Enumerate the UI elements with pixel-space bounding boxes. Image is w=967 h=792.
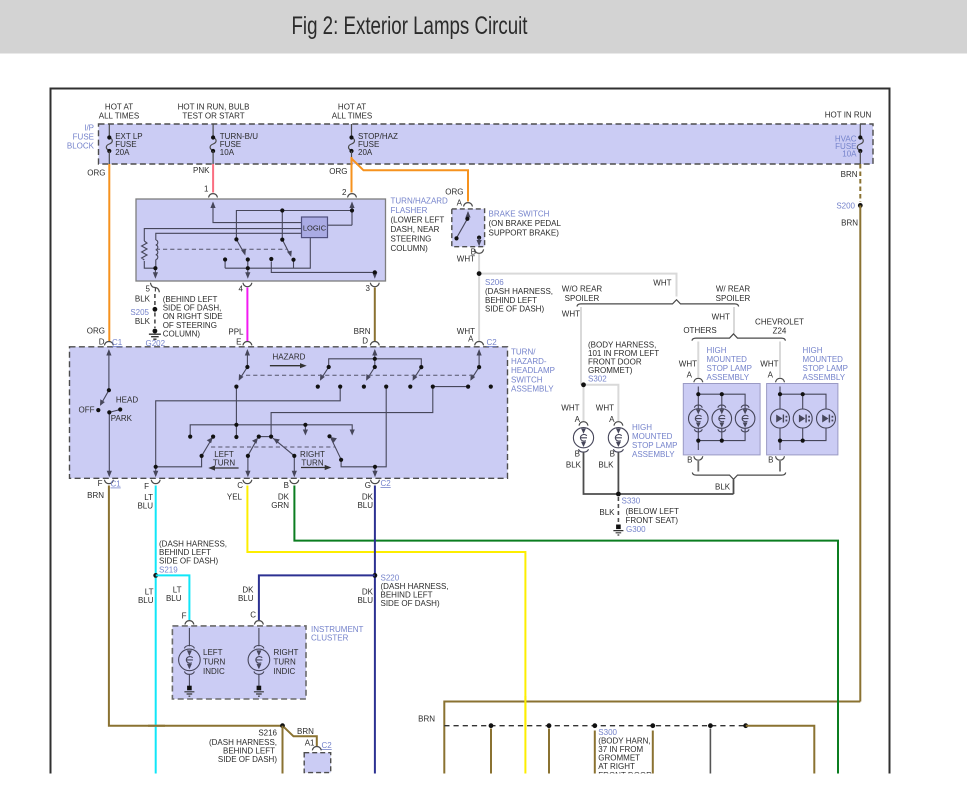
svg-text:W/O REARSPOILER: W/O REARSPOILER xyxy=(562,285,603,304)
wire WHT S302 branch to right stop lamp xyxy=(584,385,619,422)
wire WHT brake switch B to switch assembly pin A xyxy=(478,254,480,342)
splice dots S300 bus xyxy=(489,723,494,728)
arrowheads turn bus stubs xyxy=(303,430,308,436)
svg-text:A: A xyxy=(609,415,615,424)
svg-text:C2: C2 xyxy=(381,479,392,488)
z24 3-led high mounted stop lamp box xyxy=(767,384,838,455)
svg-text:D: D xyxy=(99,338,105,347)
svg-text:1: 1 xyxy=(204,185,209,194)
others 3-bulb high mounted stop lamp box xyxy=(683,384,760,455)
wire ORG from STOP/HAZ fuse to flasher pin 2 xyxy=(351,157,353,193)
svg-text:HEAD: HEAD xyxy=(116,395,138,404)
brake switch arm wire xyxy=(467,212,469,219)
svg-text:BLK: BLK xyxy=(135,317,151,326)
svg-text:S330: S330 xyxy=(622,496,641,505)
wire BRN overlay at cyan crossing xyxy=(148,725,165,727)
stem arrows (others) xyxy=(696,409,701,414)
wire BRN drop 3 xyxy=(594,731,596,774)
svg-text:A1: A1 xyxy=(305,739,315,748)
wire park to pin F xyxy=(108,412,110,472)
wire BRN switch F to S216 run xyxy=(109,486,283,726)
arrowhead brake pin A xyxy=(465,211,470,218)
hazard direction arrow xyxy=(270,365,303,367)
junction dots (switch assembly) xyxy=(107,388,111,392)
wire B exit (others) xyxy=(697,441,699,450)
brake switch box xyxy=(452,209,485,247)
hazard blade 5 xyxy=(471,367,479,379)
arrowhead pin4 down xyxy=(245,272,250,279)
wire BRN S216 down xyxy=(282,726,284,774)
wire LOGIC left to coil xyxy=(156,233,302,240)
wire hazard E stem xyxy=(246,351,248,368)
pin D top connector xyxy=(104,342,113,346)
svg-text:S206: S206 xyxy=(485,278,504,287)
splice S216 xyxy=(280,723,285,728)
svg-text:A: A xyxy=(768,371,774,380)
wire bus stub 305 xyxy=(304,425,306,433)
svg-text:(BELOW LEFTFRONT SEAT): (BELOW LEFTFRONT SEAT) xyxy=(626,507,679,525)
frame right border xyxy=(889,88,891,774)
dashed mechanical link (flasher) xyxy=(156,248,287,250)
wire tent right pivot to pin B xyxy=(293,456,295,472)
wire BRN flasher pin3 to switch pin D xyxy=(374,288,376,343)
bulb 3 (others) xyxy=(735,409,755,429)
svg-text:A: A xyxy=(687,371,693,380)
brace others/z24 split xyxy=(692,334,785,341)
bottom pin connectors xyxy=(104,480,113,484)
wire tent left pivot to pin C xyxy=(247,456,249,472)
svg-text:C: C xyxy=(250,611,256,620)
svg-text:OTHERS: OTHERS xyxy=(683,326,716,335)
wire switch2 right contact stub xyxy=(293,260,295,269)
splice S302 xyxy=(581,382,586,387)
svg-text:BLK: BLK xyxy=(715,483,731,492)
wire BRN S200 horizontal run xyxy=(444,702,860,774)
svg-text:WHT: WHT xyxy=(561,404,579,413)
flasher pin 2 connector xyxy=(348,194,357,198)
svg-text:B: B xyxy=(284,481,289,490)
arrowhead brake pin B down xyxy=(477,240,482,246)
wire switch1 right contact stub xyxy=(247,260,249,269)
svg-text:5: 5 xyxy=(146,285,151,294)
bottom bus (z24) xyxy=(780,428,826,441)
svg-text:RIGHTTURN: RIGHTTURN xyxy=(300,450,325,468)
svg-text:WHT: WHT xyxy=(653,279,671,288)
led 2 (z24) xyxy=(793,409,812,428)
wire BRN S216 to A1 xyxy=(284,727,317,747)
wire YEL switch C down to bottom xyxy=(247,486,525,774)
wire BLK dashed S205 to G202 xyxy=(154,313,156,329)
wire BRN from last splice right and down xyxy=(746,726,815,774)
svg-text:PARK: PARK xyxy=(111,414,133,423)
frame top border xyxy=(50,88,891,90)
brace rear spoiler split xyxy=(577,300,739,307)
svg-text:G300: G300 xyxy=(626,525,646,534)
arrowhead pin3 down xyxy=(372,272,377,279)
svg-text:B: B xyxy=(768,456,773,465)
wire WHT w/ spoiler branch xyxy=(733,307,735,334)
wire LT BLU switch F2 down left side xyxy=(155,486,157,774)
wire resistor bottoms join xyxy=(144,261,155,268)
bulb 1 (others) xyxy=(689,409,709,429)
arrowheads at bottom pins xyxy=(107,471,112,478)
right turn indicator bulb xyxy=(248,628,270,686)
flasher pin 1 connector xyxy=(209,194,218,198)
right single stop lamp bulb xyxy=(608,428,628,453)
left turn blade xyxy=(203,439,212,455)
wire pin1 to LOGIC xyxy=(213,203,302,223)
wire left turn pivot to F junction xyxy=(156,456,202,467)
svg-text:4: 4 xyxy=(239,285,244,294)
svg-text:ORG: ORG xyxy=(445,188,463,197)
tent right blade xyxy=(273,438,294,455)
arrowhead pin1 up xyxy=(210,202,215,209)
svg-text:C2: C2 xyxy=(322,741,333,750)
svg-text:F: F xyxy=(182,612,187,621)
wire B z24 down xyxy=(779,461,781,472)
svg-text:C1: C1 xyxy=(111,480,122,489)
wire PNK from TURN-B/U fuse to flasher pin 1 xyxy=(212,164,214,193)
svg-text:C2: C2 xyxy=(487,338,498,347)
hazard blade 2 stem xyxy=(329,359,375,367)
svg-text:PPL: PPL xyxy=(228,328,244,337)
led 1 (z24) xyxy=(771,409,790,428)
wire splice to pin5 xyxy=(154,268,156,276)
bulb stems top xyxy=(697,394,699,409)
wire LOGIC right to pin2 xyxy=(328,224,353,226)
coil (flasher) xyxy=(156,240,158,260)
arrowhead tent left blade xyxy=(252,438,258,444)
wire switch2 pivot drop xyxy=(281,211,283,240)
svg-text:BLK: BLK xyxy=(135,295,151,304)
splice S220 xyxy=(373,573,378,578)
junction dots (z24) xyxy=(778,392,782,396)
wire BRN dashed below HVAC fuse xyxy=(859,164,861,202)
fuse TURN-B/U feed wire xyxy=(212,124,214,137)
wire DK BLU switch G down to bottom xyxy=(374,486,376,774)
left single stop lamp pin A connector xyxy=(579,422,588,426)
splice S200 xyxy=(858,203,863,208)
pin A connector (others box) xyxy=(694,378,703,382)
right single stop lamp pin A connector xyxy=(614,422,623,426)
ground G202 xyxy=(153,329,158,334)
svg-text:HOT IN RUN, BULBTEST OR START: HOT IN RUN, BULBTEST OR START xyxy=(178,103,250,121)
svg-text:WHT: WHT xyxy=(712,313,730,322)
wire headlamp switch stem xyxy=(108,351,110,391)
svg-text:A: A xyxy=(468,335,474,344)
wire E contact drop xyxy=(235,387,237,437)
wire pin G exit xyxy=(374,467,376,472)
bulb 2 (others) xyxy=(712,409,732,429)
fuse TURN-B/U element xyxy=(210,138,216,151)
headlamp park contact blade xyxy=(109,410,120,413)
svg-text:BRN: BRN xyxy=(418,715,435,724)
junction dots (flasher) xyxy=(280,208,284,212)
I/P fuse block box xyxy=(99,124,874,164)
wire pin2 stem xyxy=(351,203,353,226)
svg-text:B: B xyxy=(687,456,692,465)
wire WHT to z24 stop lamp A xyxy=(779,342,781,378)
svg-text:S200: S200 xyxy=(836,202,855,211)
wire WHT S302 to left stop lamp xyxy=(583,385,585,422)
wire B others down xyxy=(697,461,699,472)
bottom crop xyxy=(0,774,967,792)
arrowhead headlamp blade xyxy=(100,399,105,406)
wire pin A into bus xyxy=(697,387,699,395)
turn/hazard-headlamp switch assembly box xyxy=(70,347,508,479)
tent top link xyxy=(259,436,271,438)
wire A contact to tent riser xyxy=(271,387,468,437)
svg-text:HOT IN RUN: HOT IN RUN xyxy=(825,111,872,120)
wire BRN from S200 down right side xyxy=(859,205,861,701)
wire ORG from EXT LP fuse to headlamp switch pin D xyxy=(108,164,110,342)
flasher pin 3 connector xyxy=(370,283,379,287)
wire pin A into bus (z24) xyxy=(779,387,781,395)
brake switch blade xyxy=(457,219,468,238)
svg-text:BRN: BRN xyxy=(297,727,314,736)
svg-text:C: C xyxy=(237,481,243,490)
left turn indicator bulb xyxy=(179,628,201,686)
junction dots (others) xyxy=(696,392,700,396)
wire BLK dashed S330 to G300 xyxy=(617,497,619,525)
svg-text:S205: S205 xyxy=(130,308,149,317)
svg-text:F: F xyxy=(144,482,149,491)
wire turn bus xyxy=(190,425,352,435)
cluster pin C connector xyxy=(254,621,263,625)
svg-text:BLK: BLK xyxy=(598,461,614,470)
top bus (z24) xyxy=(780,394,826,409)
pin B connector (others box) xyxy=(694,456,703,460)
wire switch2 left contact to pin3 xyxy=(271,262,375,273)
fuse EXT LP element xyxy=(106,138,112,151)
svg-text:E: E xyxy=(236,338,241,347)
svg-text:WHT: WHT xyxy=(596,404,614,413)
dashed hazard link xyxy=(246,374,476,376)
bottom bus (others) xyxy=(698,428,745,441)
hazard blade 4 xyxy=(413,367,421,379)
svg-text:BRN: BRN xyxy=(841,170,858,179)
svg-text:PNK: PNK xyxy=(193,166,210,175)
wire WHT to others stop lamp A xyxy=(697,342,699,378)
svg-text:C1: C1 xyxy=(112,338,123,347)
splice S206 xyxy=(477,271,482,276)
ground (left indicator) xyxy=(187,686,192,691)
svg-text:WHT: WHT xyxy=(760,360,778,369)
right turn blade xyxy=(331,438,341,458)
arrowhead pin5 down xyxy=(153,272,158,279)
wire DK GRN overlay at crossing xyxy=(837,696,839,707)
arrowhead tent right blade xyxy=(273,438,280,444)
svg-text:2: 2 xyxy=(342,188,347,197)
pin B connector (z24 box) xyxy=(776,456,785,460)
cluster pin F connector xyxy=(185,621,194,625)
wire LOGIC left to resistor xyxy=(144,229,301,241)
svg-text:A: A xyxy=(457,199,463,208)
switch blade 1 (flasher) xyxy=(236,239,244,253)
svg-text:WHT: WHT xyxy=(679,360,697,369)
wire GRY drop xyxy=(709,729,711,774)
svg-text:OFF: OFF xyxy=(79,406,95,415)
arrowhead left turn blade xyxy=(207,437,213,443)
svg-text:BRN: BRN xyxy=(841,219,858,228)
wire B exit (z24) xyxy=(779,441,781,450)
LOGIC box xyxy=(302,217,328,238)
svg-text:RIGHTTURNINDIC: RIGHTTURNINDIC xyxy=(274,648,299,676)
wire BRN drop 1 xyxy=(490,729,492,774)
dashed S300 bus xyxy=(444,725,747,727)
dashed turn link xyxy=(211,446,335,448)
wire blade2 right contact to LT BLU riser xyxy=(156,387,341,467)
wire bus pin2 xyxy=(236,211,352,240)
instrument cluster box xyxy=(172,626,306,699)
fuse EXT LP feed wire xyxy=(108,124,110,137)
svg-text:Fig 2: Exterior Lamps Circuit: Fig 2: Exterior Lamps Circuit xyxy=(292,12,528,40)
svg-text:BLK: BLK xyxy=(566,461,582,470)
left single stop lamp bulb xyxy=(573,428,593,453)
frame left border xyxy=(50,88,52,774)
pin A connector (z24 box) xyxy=(776,378,785,382)
arrowheads at top pins xyxy=(106,349,111,356)
svg-text:B: B xyxy=(575,450,580,459)
wire pin F exit xyxy=(155,467,157,472)
svg-text:W/ REARSPOILER: W/ REARSPOILER xyxy=(716,285,751,304)
svg-text:G: G xyxy=(365,481,371,490)
switch blade 2 (flasher) xyxy=(282,240,290,255)
left turn direction arrow xyxy=(212,467,239,469)
brake switch contact to pin B xyxy=(477,236,481,240)
svg-text:LEFTTURNINDIC: LEFTTURNINDIC xyxy=(203,648,225,676)
brake switch pin A connector xyxy=(464,203,473,207)
fuse STOP/HAZ feed wire xyxy=(351,124,353,137)
led 3 (z24) xyxy=(817,409,836,428)
flasher pin 5 connector xyxy=(150,283,159,292)
wire ORG branch to brake switch xyxy=(352,159,469,202)
wire hazard D stem xyxy=(374,351,376,368)
hazard blade 1 xyxy=(240,367,248,379)
resistor (flasher) xyxy=(142,241,147,260)
svg-text:LEFTTURN: LEFTTURN xyxy=(213,450,235,468)
title bar xyxy=(0,0,967,54)
wire D right contact long riser xyxy=(341,387,386,467)
brace B join xyxy=(692,473,785,480)
ground (right indicator) xyxy=(257,686,262,691)
svg-text:WHT: WHT xyxy=(562,310,580,319)
tent left blade xyxy=(249,440,257,455)
fuse STOP/HAZ element xyxy=(349,138,355,151)
hazard blade 2 xyxy=(321,367,329,379)
wire PPL flasher pin4 to switch pin E xyxy=(246,288,248,343)
fuse HVAC feed wire xyxy=(859,124,861,137)
splice S205 xyxy=(153,307,158,312)
ground G300 xyxy=(616,525,621,530)
svg-text:ORG: ORG xyxy=(87,327,105,336)
led symbols xyxy=(776,415,833,423)
svg-text:B: B xyxy=(610,450,615,459)
wire pin4 drop xyxy=(247,268,249,276)
pin A1 connector xyxy=(312,747,321,751)
hazard blade 4 stem xyxy=(375,359,422,367)
headlamp switch blade xyxy=(101,390,109,404)
svg-text:HAZARD: HAZARD xyxy=(273,353,306,362)
splice S219 xyxy=(153,573,158,578)
wire BRN drop 4 xyxy=(652,731,654,774)
wire BLK brace to S330 run xyxy=(733,480,735,495)
wire DK GRN switch B down to bottom right xyxy=(294,486,838,774)
svg-text:3: 3 xyxy=(366,284,371,293)
arrowhead blade1 xyxy=(241,249,246,255)
wire YEL overlay at crossings xyxy=(524,696,526,730)
wire WHT w/o spoiler branch to S302 xyxy=(580,307,582,385)
wire LOGIC bottom bus xyxy=(225,238,310,269)
top bus (others) xyxy=(698,394,745,409)
splice S330 xyxy=(616,492,621,497)
arrowheads hazard blades xyxy=(239,374,244,381)
brake switch pin B connector xyxy=(475,249,484,253)
arrowhead right turn blade xyxy=(330,437,337,443)
svg-text:WHT: WHT xyxy=(457,255,475,264)
arrowhead pin2 up xyxy=(349,202,354,209)
fuse HVAC element xyxy=(857,138,863,151)
turn/hazard flasher box xyxy=(136,199,386,281)
svg-text:ORG: ORG xyxy=(329,167,347,176)
arrowhead blade2 xyxy=(287,251,292,257)
svg-text:YEL: YEL xyxy=(227,493,243,502)
pin A top connector xyxy=(475,342,484,346)
svg-text:BRN: BRN xyxy=(87,491,104,500)
wire switch1 left contact stub xyxy=(224,260,226,269)
wire BRN drop 2 xyxy=(548,729,550,774)
wire hazard A stem xyxy=(478,351,480,368)
flasher pin 4 connector xyxy=(243,283,252,287)
right turn direction arrow xyxy=(301,467,328,469)
svg-text:BLK: BLK xyxy=(599,508,615,517)
svg-text:LOGIC: LOGIC xyxy=(303,224,327,233)
svg-text:D: D xyxy=(362,337,368,346)
pin D2 top connector xyxy=(370,342,379,346)
wire pin3 drop xyxy=(374,272,376,276)
wire LT BLU branch to cluster pin F xyxy=(156,575,190,620)
wire BLK dashed flasher pin5 to S205 xyxy=(154,294,156,306)
pin E top connector xyxy=(243,342,252,346)
svg-text:BRN: BRN xyxy=(354,327,371,336)
wire WHT S206 horizontal run xyxy=(479,274,676,297)
hazard blade 3 xyxy=(367,367,375,379)
svg-text:ORG: ORG xyxy=(87,169,105,178)
wire DK BLU branch to cluster pin C xyxy=(259,575,375,620)
wire BLK left bulb to S330 run xyxy=(584,452,734,494)
svg-text:F: F xyxy=(98,479,103,488)
wire BLK right bulb to S330 xyxy=(617,452,619,494)
A1 component box xyxy=(304,753,331,773)
